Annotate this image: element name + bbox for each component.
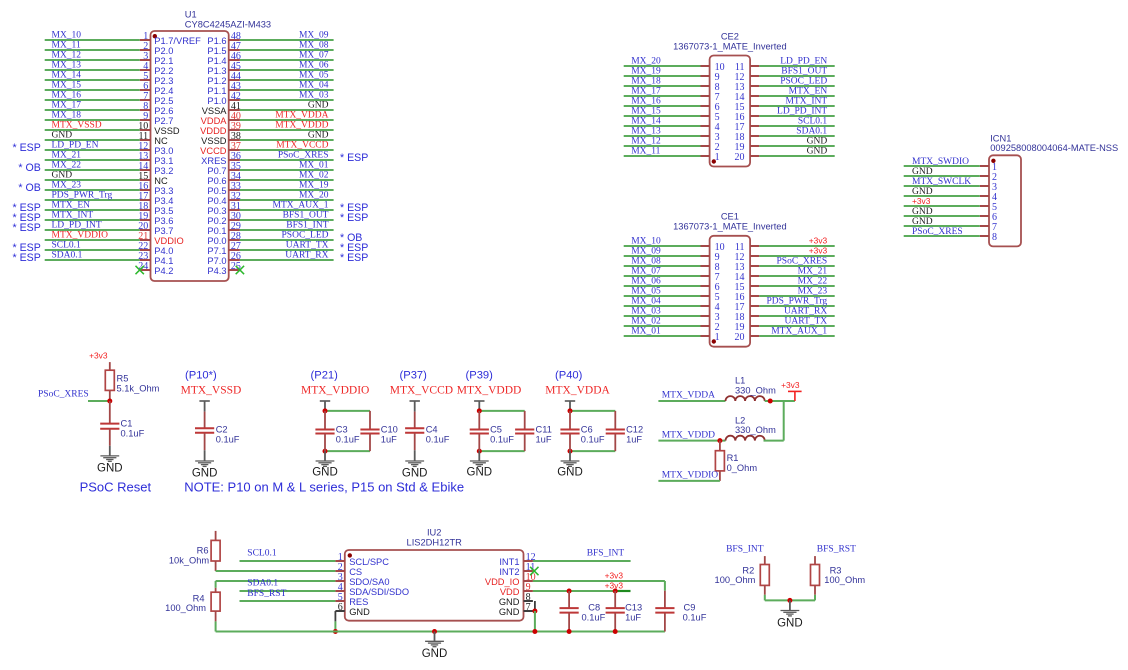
ground symbol below R2/R3 [781, 600, 800, 616]
CE1 pin 5 (left) [701, 292, 720, 303]
svg-text:GND: GND [807, 147, 828, 157]
svg-text:PSoC_XRES: PSoC_XRES [278, 151, 329, 161]
CE2 value 1367073-1_MATE_Inverted [673, 42, 787, 52]
ICN1 value 009258008004064-MATE-NSS [990, 143, 1118, 153]
wire net MX_21 to U1 pin 13 [45, 151, 140, 161]
svg-text:MX_21: MX_21 [52, 151, 82, 161]
svg-text:R5: R5 [117, 373, 129, 383]
svg-text:P2.5: P2.5 [154, 96, 173, 106]
U1 pin 38 (VSSD) [201, 131, 241, 146]
svg-text:CE1: CE1 [721, 212, 739, 222]
svg-text:P3.7: P3.7 [154, 226, 173, 236]
wire net UART_TX to CE1 pin 19 [759, 317, 834, 327]
wire IU2 pin 10 (VDD_IO) to C9 [533, 581, 665, 591]
U1 pin 9 (P2.7) [140, 111, 174, 126]
wire net MX_01 to CE1 pin 1 [624, 327, 701, 337]
R2 reference [742, 565, 754, 575]
svg-text:P1.4: P1.4 [207, 56, 226, 66]
wire net MX_15 to CE2 pin 5 [624, 107, 701, 117]
svg-text:IU2: IU2 [427, 527, 441, 537]
wire parallel rails for C5/C11 [479, 411, 524, 451]
wire net MX_16 to CE2 pin 6 [624, 97, 701, 107]
svg-text:PSoC_XRES: PSoC_XRES [777, 257, 828, 267]
wire net MX_09 to CE1 pin 9 [624, 247, 701, 257]
junction VDD / C8 [567, 589, 572, 594]
wire net MX_09 to U1 pin 48 [240, 31, 334, 41]
svg-text:GND: GND [777, 617, 803, 629]
resistor R2 body and leads [760, 556, 769, 595]
wire net MX_11 to U1 pin 2 [45, 41, 140, 51]
svg-text:LIS2DH12TR: LIS2DH12TR [407, 537, 463, 547]
pin label (P37) above C4 [400, 369, 428, 381]
U1 pin 22 (P4.0) [138, 241, 173, 256]
net label SCL0.1 and wire to IU2 pin 1 [240, 549, 336, 561]
svg-text:NC: NC [154, 176, 168, 186]
CE1 pin 14 (right) [735, 272, 760, 283]
svg-text:GND: GND [308, 101, 329, 111]
U1 pin 16 (P3.3) [138, 181, 173, 196]
junction VDD / C13 [613, 589, 618, 594]
svg-text:MX_19: MX_19 [299, 181, 329, 191]
svg-text:MX_12: MX_12 [52, 51, 82, 61]
C10 reference [381, 424, 398, 434]
svg-text:1: 1 [715, 332, 720, 343]
wire net MX_16 to U1 pin 7 [45, 91, 140, 101]
pin label (P21) above C3 [311, 369, 339, 381]
svg-text:P3.2: P3.2 [154, 166, 173, 176]
wire vertical +3v3 rail [783, 401, 785, 441]
wire net GND to U1 pin 15 [45, 171, 140, 181]
net label BFS_INT above R2 [726, 545, 764, 555]
svg-text:ICN1: ICN1 [990, 134, 1011, 144]
U1 pin 7 (P2.5) [140, 91, 174, 106]
svg-text:MX_08: MX_08 [631, 257, 661, 267]
wire net PSOC_LED to U1 pin 28 [240, 231, 334, 241]
CE2 pin 11 (right) [735, 62, 759, 73]
CE1 pin 19 (right) [735, 322, 760, 333]
svg-text:SDA0.1: SDA0.1 [796, 127, 827, 137]
svg-text:MX_06: MX_06 [631, 277, 661, 287]
svg-text:P1.2: P1.2 [207, 76, 226, 86]
C1 value 0.1uF [121, 429, 145, 439]
svg-text:MX_05: MX_05 [299, 71, 329, 81]
svg-text:C9: C9 [684, 602, 696, 612]
C5 reference [490, 424, 502, 434]
wire net LD_PD_EN to CE2 pin 11 [759, 57, 834, 67]
svg-text:MTX_INT: MTX_INT [52, 211, 94, 221]
wire net MX_03 to CE1 pin 3 [624, 307, 701, 317]
* ESP marker for U1 pin 26 [340, 252, 368, 264]
svg-text:P1.3: P1.3 [207, 66, 226, 76]
svg-text:8: 8 [992, 232, 997, 243]
svg-text:P0.6: P0.6 [207, 176, 226, 186]
wire net MX_08 to U1 pin 47 [240, 41, 334, 51]
junction node R5/C1/PSoC_XRES [107, 399, 112, 404]
wire net MTX_VSSD to U1 pin 10 [45, 121, 140, 131]
svg-text:P2.7: P2.7 [154, 116, 173, 126]
svg-text:MX_23: MX_23 [798, 287, 828, 297]
U1 pin 18 (P3.5) [138, 201, 173, 216]
wire net MX_15 to U1 pin 6 [45, 81, 140, 91]
svg-text:SDA0.1: SDA0.1 [52, 251, 83, 261]
power +3v3 symbol right of L1 [781, 380, 802, 401]
C4 value 0.1uF [426, 434, 450, 444]
L1 value 330_Ohm [735, 385, 776, 395]
U1 pin 13 (P3.1) [138, 151, 173, 166]
U1 pin 12 (P3.0) [138, 141, 173, 156]
IU2 pin 5 (RES) [335, 592, 368, 607]
svg-text:PDS_PWR_Trg: PDS_PWR_Trg [52, 191, 113, 201]
svg-text:0.1uF: 0.1uF [683, 612, 707, 622]
capacitor C1 leads and plates [100, 401, 119, 446]
svg-text:MTX_VDDD: MTX_VDDD [662, 430, 715, 440]
CE2 pin 8 (left) [701, 82, 720, 93]
CE2 pin 12 (right) [735, 72, 760, 83]
svg-text:U1: U1 [185, 9, 197, 19]
* OB marker for U1 pin 14 [18, 162, 40, 174]
svg-text:C10: C10 [381, 424, 398, 434]
wire net LD_PD_INT to CE2 pin 16 [759, 107, 834, 117]
svg-text:GND: GND [467, 467, 493, 479]
svg-text:MX_17: MX_17 [631, 87, 661, 97]
svg-text:SDA0.1: SDA0.1 [247, 579, 278, 589]
svg-text:XRES: XRES [201, 156, 226, 166]
svg-text:R2: R2 [742, 565, 754, 575]
svg-text:MX_04: MX_04 [299, 81, 329, 91]
U1 pin 40 (VDDA) [201, 111, 241, 126]
svg-text:C1: C1 [121, 419, 133, 429]
svg-text:0.1uF: 0.1uF [216, 434, 240, 444]
wire net BFS1_OUT to U1 pin 30 [240, 211, 334, 221]
svg-text:MX_06: MX_06 [299, 61, 329, 71]
op IC U1 CY8C4245AZI-M433 body [151, 31, 229, 281]
svg-text:P4.0: P4.0 [154, 246, 173, 256]
CE2 pin 9 (left) [701, 72, 720, 83]
svg-text:1uF: 1uF [625, 612, 641, 622]
svg-text:0.1uF: 0.1uF [426, 434, 450, 444]
svg-text:MX_15: MX_15 [52, 81, 82, 91]
svg-text:C13: C13 [625, 602, 642, 612]
net label BFS_RST and wire to IU2 pin 5 [240, 589, 336, 601]
svg-text:MX_08: MX_08 [299, 41, 329, 51]
svg-text:GND: GND [97, 463, 123, 475]
net label MTX_VDDA and wire to L1 [658, 391, 725, 401]
ICN1 pin 8 [980, 232, 997, 243]
CE2 pin 14 (right) [735, 92, 760, 103]
svg-text:VSSA: VSSA [202, 106, 228, 116]
svg-text:MTX_SWDIO: MTX_SWDIO [912, 157, 969, 167]
wire net BFS1_INT to U1 pin 29 [240, 221, 334, 231]
CE1 pin 6 (left) [701, 282, 720, 293]
U1 pin 37 (VCCD) [200, 141, 241, 156]
svg-text:P0.3: P0.3 [207, 206, 226, 216]
svg-text:CY8C4245AZI-M433: CY8C4245AZI-M433 [185, 19, 271, 29]
svg-text:P0.2: P0.2 [207, 216, 226, 226]
svg-text:P3.4: P3.4 [154, 196, 173, 206]
CE1 pin 8 (left) [701, 262, 720, 273]
U1 pin 42 (P1.0) [207, 91, 241, 106]
junction L1 output [768, 399, 773, 404]
svg-text:GND: GND [308, 131, 329, 141]
U1 pin 33 (P0.5) [207, 181, 241, 196]
U1 pin 47 (P1.5) [207, 41, 241, 56]
wire net MX_07 to U1 pin 46 [240, 51, 334, 61]
CE1 pin 7 (left) [701, 272, 720, 283]
CE2 pin 2 (left) [701, 142, 720, 153]
CE1 pin 4 (left) [701, 302, 720, 313]
IU2 pin 2 (CS) [335, 562, 362, 577]
wire net GND to U1 pin 11 [45, 131, 140, 141]
junction pin 6 at ground rail [333, 629, 338, 634]
svg-text:SCL0.1: SCL0.1 [52, 241, 82, 251]
svg-text:BFS_RST: BFS_RST [247, 589, 286, 599]
* OB marker for U1 pin 28 [340, 232, 362, 244]
CE2 pin 7 (left) [701, 92, 720, 103]
svg-text:P1.7/VREF: P1.7/VREF [154, 36, 201, 46]
svg-text:LD_PD_EN: LD_PD_EN [780, 57, 827, 67]
svg-text:MX_11: MX_11 [631, 147, 660, 157]
svg-text:1uF: 1uF [381, 434, 397, 444]
junction R2/R3 ground node [787, 598, 792, 603]
wire net MX_10 to U1 pin 1 [45, 31, 140, 41]
R3 value 100_Ohm [824, 575, 865, 585]
capacitor C2 leads and plates [195, 412, 214, 451]
svg-text:GND: GND [402, 467, 428, 479]
C2 reference [216, 424, 228, 434]
ground symbol on bottom rail [425, 632, 444, 647]
IU2 pin 10 (VDD_IO) [485, 572, 536, 587]
svg-text:GND: GND [807, 137, 828, 147]
C13 reference [625, 602, 642, 612]
wire net PSoC_XRES to CE1 pin 13 [759, 257, 834, 267]
CE1 pin 13 (right) [735, 262, 760, 273]
power stub for MTX_VCCD [410, 401, 420, 412]
svg-text:BFS_RST: BFS_RST [817, 545, 856, 555]
svg-text:MX_20: MX_20 [299, 191, 329, 201]
* ESP marker for U1 pin 27 [340, 242, 368, 254]
svg-text:GND: GND [349, 607, 370, 617]
wire net BFS1_OUT to CE2 pin 12 [759, 67, 834, 77]
svg-text:* ESP: * ESP [340, 152, 368, 164]
CE1 pin 11 (right) [735, 242, 759, 253]
svg-text:MX_13: MX_13 [52, 61, 82, 71]
CE1 pin 18 (right) [735, 312, 760, 323]
svg-text:P7.0: P7.0 [207, 256, 226, 266]
svg-text:INT2: INT2 [499, 567, 519, 577]
CE1 pin 17 (right) [735, 302, 760, 313]
GND label below C4 [402, 467, 428, 479]
svg-text:MTX_VSSD: MTX_VSSD [52, 121, 102, 131]
C3 value 0.1uF [336, 434, 360, 444]
capacitor C13 leads and plates [606, 591, 625, 632]
svg-text:R4: R4 [193, 594, 205, 604]
ground symbol below C1 [100, 446, 119, 462]
wire net SCL0.1 to CE2 pin 17 [759, 117, 834, 127]
wire L2 output [764, 440, 784, 442]
ground symbol below C6 [561, 451, 580, 466]
wire net MX_10 to CE1 pin 10 [624, 237, 701, 247]
capacitor C11 leads and plates [515, 411, 534, 451]
svg-text:20: 20 [735, 332, 745, 343]
wire net MX_18 to CE2 pin 8 [624, 77, 701, 87]
svg-text:GND: GND [422, 648, 448, 660]
svg-text:+3v3: +3v3 [809, 246, 828, 256]
wire IU2 pin 9 (VDD) to C8/C13 [533, 590, 615, 592]
CE1 pin 15 (right) [735, 282, 760, 293]
svg-text:+3v3: +3v3 [89, 351, 108, 361]
wire net MX_19 to U1 pin 33 [240, 181, 334, 191]
svg-text:C8: C8 [588, 602, 600, 612]
svg-text:330_Ohm: 330_Ohm [735, 385, 776, 395]
U1 pin 8 (P2.6) [140, 101, 174, 116]
wire net +3v3 to CE1 pin 12 [759, 246, 834, 257]
svg-text:P4.2: P4.2 [154, 266, 173, 276]
svg-text:MX_20: MX_20 [631, 57, 661, 67]
inductor L1 body [726, 396, 765, 401]
C3 reference [336, 424, 348, 434]
svg-text:UART_RX: UART_RX [784, 307, 827, 317]
capacitor C6 leads and plates [560, 411, 579, 451]
svg-text:R1: R1 [727, 453, 739, 463]
wire net MX_23 to U1 pin 16 [45, 181, 140, 191]
svg-text:BFS_INT: BFS_INT [726, 545, 764, 555]
U1 pin 4 (P2.2) [140, 61, 174, 76]
U1 pin 31 (P0.3) [207, 201, 241, 216]
power stub for MTX_VDDD [474, 401, 484, 411]
svg-text:P3.6: P3.6 [154, 216, 173, 226]
svg-text:VSSD: VSSD [154, 126, 180, 136]
C12 value 1uF [626, 434, 642, 444]
net label MTX_VDDA above C6 [545, 384, 610, 396]
caption NOTE about P10/P15 [184, 480, 464, 495]
svg-text:100_Ohm: 100_Ohm [824, 575, 865, 585]
svg-text:MX_18: MX_18 [631, 77, 661, 87]
svg-text:NOTE: P10 on M & L series, P15: NOTE: P10 on M & L series, P15 on Std & … [184, 480, 464, 495]
GND label below C5 [467, 467, 493, 479]
svg-text:10k_Ohm: 10k_Ohm [169, 555, 210, 565]
svg-text:MTX_INT: MTX_INT [785, 97, 827, 107]
svg-text:* OB: * OB [18, 182, 40, 194]
svg-text:UART_TX: UART_TX [784, 317, 827, 327]
U1 pin 10 (VSSD) [138, 121, 180, 136]
wire net UART_RX to CE1 pin 18 [759, 307, 834, 317]
GND label on bottom rail [422, 648, 448, 660]
wire net MTX_EN to U1 pin 18 [45, 201, 140, 211]
svg-text:MX_23: MX_23 [52, 181, 82, 191]
wire net MX_18 to U1 pin 9 [45, 111, 140, 121]
R5 lower lead [109, 390, 111, 401]
U1 pin 23 (P4.1) [138, 251, 173, 266]
svg-text:6: 6 [338, 602, 343, 613]
wire net MX_02 to U1 pin 34 [240, 171, 334, 181]
svg-text:P1.1: P1.1 [207, 86, 226, 96]
svg-text:MTX_VDDD: MTX_VDDD [275, 121, 328, 131]
U1 pin 27 (P7.1) [207, 241, 241, 256]
svg-text:1367073-1_MATE_Inverted: 1367073-1_MATE_Inverted [673, 42, 787, 52]
wire net MX_05 to CE1 pin 5 [624, 287, 701, 297]
svg-text:MX_03: MX_03 [631, 307, 661, 317]
svg-text:0.1uF: 0.1uF [121, 429, 145, 439]
U1 pin 28 (P0.0) [207, 231, 241, 246]
wire net MX_22 to CE1 pin 15 [759, 277, 834, 287]
IU2 pin 6 (GND) [335, 602, 370, 617]
C1 reference [121, 419, 133, 429]
svg-text:MTX_VDDA: MTX_VDDA [545, 384, 610, 396]
svg-text:LD_PD_EN: LD_PD_EN [52, 141, 99, 151]
wire net MX_17 to U1 pin 8 [45, 101, 140, 111]
CE2 pin 15 (right) [735, 102, 760, 113]
U1 pin 29 (P0.1) [207, 221, 241, 236]
svg-text:C6: C6 [581, 424, 593, 434]
svg-text:* ESP: * ESP [340, 212, 368, 224]
wire net GND to CE2 pin 19 [759, 137, 834, 147]
U1 pin 2 (P2.0) [140, 41, 174, 56]
U1 pin 44 (P1.2) [207, 71, 241, 86]
svg-text:009258008004064-MATE-NSS: 009258008004064-MATE-NSS [990, 143, 1118, 153]
wire net MX_04 to U1 pin 43 [240, 81, 334, 91]
svg-text:R6: R6 [197, 546, 209, 556]
svg-text:MX_15: MX_15 [631, 107, 661, 117]
svg-text:MTX_SWCLK: MTX_SWCLK [912, 177, 971, 187]
svg-text:BFS_INT: BFS_INT [587, 549, 625, 559]
wire R2 to R3 ground link [765, 595, 815, 601]
svg-text:1367073-1_MATE_Inverted: 1367073-1_MATE_Inverted [673, 222, 787, 232]
CE1 pin 12 (right) [735, 252, 760, 263]
wire net MX_14 to CE2 pin 4 [624, 117, 701, 127]
wire net GND to ICN1 pin 2 [904, 167, 980, 177]
junction C13 at rail [613, 629, 618, 634]
wire net +3v3 to CE1 pin 11 [759, 236, 834, 247]
wire pins 7/8 down to ground rail [534, 611, 536, 632]
GND label below C1 [97, 463, 123, 475]
svg-text:VDD_IO: VDD_IO [485, 577, 520, 587]
* ESP marker for U1 pin 12 [13, 142, 41, 154]
svg-text:MX_22: MX_22 [52, 161, 82, 171]
wire net GND to ICN1 pin 7 [904, 217, 980, 227]
IU2 value LIS2DH12TR [407, 537, 463, 547]
svg-text:100_Ohm: 100_Ohm [715, 575, 756, 585]
wire net MTX_INT to CE2 pin 15 [759, 97, 834, 107]
svg-text:* ESP: * ESP [13, 142, 41, 154]
svg-text:MX_17: MX_17 [52, 101, 82, 111]
U1 pin 39 (VDDD) [200, 121, 241, 136]
ICN1 pin 4 [980, 192, 997, 203]
net label MTX_VSSD above C2 [181, 384, 242, 396]
IU2 pin 11 (INT2) [499, 562, 535, 577]
net label BFS_INT and wire to IU2 pin 12 [533, 549, 631, 561]
connector CE1 1367073-1_MATE_Inverted body [710, 236, 751, 347]
wire net MX_04 to CE1 pin 4 [624, 297, 701, 307]
net label SDA0.1 and wire to IU2 pin 4 [240, 579, 336, 591]
R2 value 100_Ohm [715, 575, 756, 585]
wire IU2 pin 6 down to ground rail [334, 611, 336, 632]
ICN1 pin 7 [980, 222, 997, 233]
svg-text:P0.7: P0.7 [207, 166, 226, 176]
U1 pin 6 (P2.4) [140, 81, 174, 96]
wire L1 output to +3v3 [765, 400, 795, 402]
net label MTX_VDDD and wire to L2 [658, 430, 725, 440]
op IC IU2 LIS2DH12TR body [345, 550, 524, 621]
svg-text:GND: GND [912, 217, 933, 227]
pin label (P39) above C5 [466, 369, 494, 381]
CE2 pin 3 (left) [701, 132, 720, 143]
U1 reference designator [185, 9, 197, 19]
CE2 pin 18 (right) [735, 132, 760, 143]
power stub for MTX_VDDA [565, 401, 575, 411]
svg-text:R3: R3 [830, 565, 842, 575]
svg-text:MX_07: MX_07 [299, 51, 329, 61]
wire net MX_20 to CE2 pin 10 [624, 57, 701, 67]
